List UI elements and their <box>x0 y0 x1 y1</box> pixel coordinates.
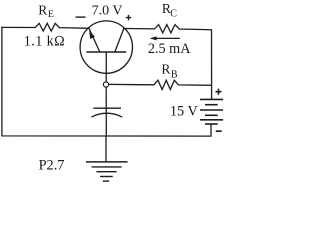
battery B1 short plate 2 <box>206 114 217 116</box>
capacitor curved bottom plate <box>92 113 122 117</box>
svg-text:R: R <box>161 62 170 77</box>
svg-text:2.5 mA: 2.5 mA <box>148 41 191 57</box>
ground bar 5 <box>103 180 108 182</box>
battery B1 long plate 3 <box>201 119 223 121</box>
wire bottom and left edge <box>2 27 211 136</box>
capacitor lead through plates to bottom wire <box>105 87 107 136</box>
ground lead below bottom wire <box>105 136 107 162</box>
battery B1 long plate 2 <box>201 109 223 111</box>
minus sign at transistor emitter side <box>76 16 86 18</box>
current arrow 2.5 mA pointing left <box>153 37 180 39</box>
svg-text:P2.7: P2.7 <box>39 158 65 174</box>
battery B1 long plate 1 <box>201 98 223 100</box>
wire RB branch from node to right edge <box>109 80 212 89</box>
plus sign at transistor collector side <box>126 15 131 20</box>
emitter arrow head <box>89 31 95 40</box>
svg-text:B: B <box>171 69 178 80</box>
transistor Q1 collector line <box>115 29 124 52</box>
transistor Q1 base bar <box>87 51 125 53</box>
capacitor top plate <box>94 107 120 109</box>
transistor Q1 base lead <box>105 53 107 82</box>
wire top-left with resistor RE zigzag <box>2 23 89 31</box>
ground bar 2 <box>92 166 121 168</box>
minus sign at battery bottom <box>216 130 222 132</box>
transistor Q1 emitter line <box>89 29 100 52</box>
ground bar 3 <box>97 171 116 173</box>
ground bar 4 <box>101 176 112 178</box>
ground bar 1 <box>87 161 127 163</box>
svg-text:R: R <box>38 2 47 17</box>
node: base node open circle <box>103 82 108 87</box>
battery B1 short plate 1 <box>206 104 217 106</box>
svg-text:1.1 kΩ: 1.1 kΩ <box>24 33 65 49</box>
current arrow head <box>150 36 157 40</box>
svg-text:E: E <box>48 9 54 20</box>
svg-text:7.0 V: 7.0 V <box>92 3 123 18</box>
transistor Q1 body circle <box>80 21 132 73</box>
wire top-right with resistor RC zigzag, down right edge to battery <box>124 25 212 100</box>
svg-text:C: C <box>170 9 177 20</box>
plus sign at battery top <box>216 89 222 95</box>
battery B1 short plate 3 <box>206 123 217 125</box>
svg-text:15 V: 15 V <box>170 103 199 119</box>
